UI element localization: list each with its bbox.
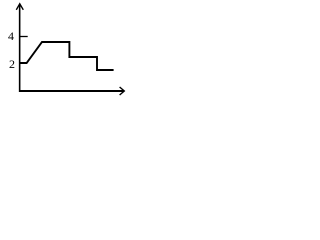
tick y=4 (20, 36, 28, 38)
svg-text:2: 2 (9, 57, 15, 71)
y-axis (19, 5, 21, 93)
x-axis arrowhead (120, 87, 125, 95)
y-axis arrowhead (16, 4, 23, 10)
x-axis (19, 90, 124, 92)
step curve (20, 42, 114, 70)
background (0, 0, 128, 103)
svg-text:4: 4 (8, 29, 14, 43)
